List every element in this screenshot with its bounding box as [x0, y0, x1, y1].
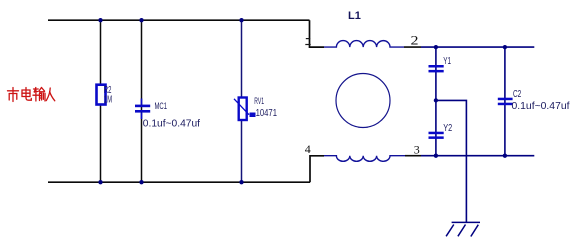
svg-text:C2: C2 [513, 89, 522, 100]
wire C2 branch vertical [504, 47, 506, 156]
label R2 designator [104, 84, 112, 96]
wire R2 branch vertical [100, 20, 102, 182]
junction bottom bus / R2 [98, 180, 102, 184]
wire bottom bus step up to L1 pin 4 [310, 156, 324, 182]
capacitor Y2 [429, 132, 444, 139]
pin 3 stub of L1 [405, 155, 421, 157]
svg-text:0.1uf~0.47uf: 0.1uf~0.47uf [512, 101, 570, 112]
choke core circle of L1 [336, 74, 390, 128]
junction bottom bus / RV1 [239, 180, 243, 184]
value 0.1uf~0.47uf for MC1 [143, 118, 200, 129]
svg-text:Y2: Y2 [443, 122, 452, 134]
wire Y1/Y2 branch vertical [435, 47, 437, 156]
wire bottom bus (N line) [48, 181, 310, 183]
pin 1 of L1 [305, 39, 310, 45]
value 10471 for RV1 [256, 108, 277, 119]
svg-text:Y1: Y1 [443, 55, 451, 67]
svg-text:MC1: MC1 [155, 101, 168, 112]
junction net3 / Y2 [434, 154, 438, 158]
capacitor C2 [498, 98, 513, 106]
pin 4 of L1 [305, 142, 311, 156]
wire top bus step down to L1 pin 1 [310, 20, 325, 47]
wire net 2 (to right edge) [421, 46, 534, 48]
svg-text:4: 4 [305, 142, 311, 156]
inductor L1 lower winding [324, 156, 405, 162]
label C2 designator [513, 89, 522, 100]
wire Y midpoint to earth [436, 100, 467, 222]
label L1 designator [348, 10, 361, 22]
pin 2 stub of L1 [404, 46, 421, 48]
pin 2 of L1 [411, 32, 419, 47]
wire top bus (L line) [48, 19, 310, 21]
wire MC1 branch vertical [141, 20, 143, 182]
svg-text:L1: L1 [348, 10, 361, 22]
junction net2 / Y1 [434, 45, 438, 49]
junction net3 / C2 [503, 154, 507, 158]
varistor RV1 [234, 98, 256, 121]
label RV1 designator [254, 96, 264, 107]
label Y2 designator [443, 122, 452, 134]
svg-text:RV1: RV1 [254, 96, 264, 107]
svg-text:2: 2 [411, 32, 419, 47]
capacitor Y1 [429, 65, 444, 72]
label Y1 designator [443, 55, 451, 67]
value 0.1uf~0.47uf for C2 [512, 101, 570, 112]
resistor R2 [97, 85, 106, 105]
earth ground symbol [446, 222, 480, 236]
capacitor MC1 [135, 99, 150, 120]
inductor L1 upper winding [324, 41, 404, 48]
junction top bus / MC1 [139, 18, 143, 22]
wire net 3 (to right edge) [421, 155, 534, 157]
svg-text:0.1uf~0.47uf: 0.1uf~0.47uf [143, 118, 200, 129]
svg-text:1M: 1M [104, 94, 112, 106]
junction bottom bus / MC1 [139, 180, 143, 184]
net label 市电输入 (mains input, red) [8, 88, 55, 102]
junction Y1/Y2 midpoint [434, 98, 438, 102]
junction top bus / R2 [98, 18, 102, 22]
svg-text:3: 3 [414, 142, 420, 156]
junction net2 / C2 [503, 45, 507, 49]
svg-text:10471: 10471 [256, 108, 277, 119]
label MC1 designator [155, 101, 168, 112]
value 1M for R2 [104, 94, 112, 106]
junction top bus / RV1 [239, 18, 243, 22]
pin 3 of L1 [414, 142, 420, 156]
wire RV1 branch vertical [241, 20, 243, 182]
